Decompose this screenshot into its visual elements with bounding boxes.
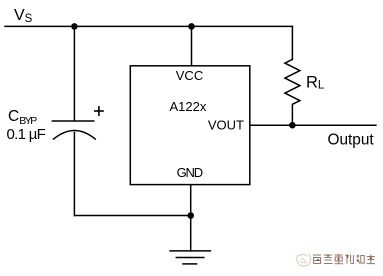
svg-text:RL: RL [306,73,325,91]
svg-text:Output: Output [328,132,375,149]
wire capacitor bottom lead [73,133,75,216]
wire top rail VS [5,25,292,27]
wire capacitor top lead [73,26,75,120]
watermark logo [297,254,311,266]
node junction VOUT [289,122,296,129]
node junction VS-VCC [188,23,195,30]
watermark text [313,254,375,264]
svg-text:VCC: VCC [176,68,203,83]
wire bottom rail [74,215,190,217]
wire output [250,124,376,126]
resistor R1 zigzag [285,59,300,104]
svg-text:VS: VS [14,7,33,25]
capacitor plus sign [94,106,104,116]
wire GND pin [190,185,192,251]
op-amp U1 A122x box [130,66,250,185]
node junction VS-cap [71,23,78,30]
node junction GND [187,212,194,219]
svg-text:VOUT: VOUT [208,117,244,132]
watermark dark specks [317,255,372,262]
svg-text:0.1 µF: 0.1 µF [7,126,46,143]
capacitor C1 plates [52,121,96,140]
wire VCC drop [191,26,193,65]
svg-text:CBYP: CBYP [8,108,37,127]
wire resistor top lead [291,26,293,59]
svg-text:A122x: A122x [169,99,206,114]
wire resistor bottom lead [291,104,293,125]
svg-text:GND: GND [177,165,203,180]
ground [169,251,211,264]
